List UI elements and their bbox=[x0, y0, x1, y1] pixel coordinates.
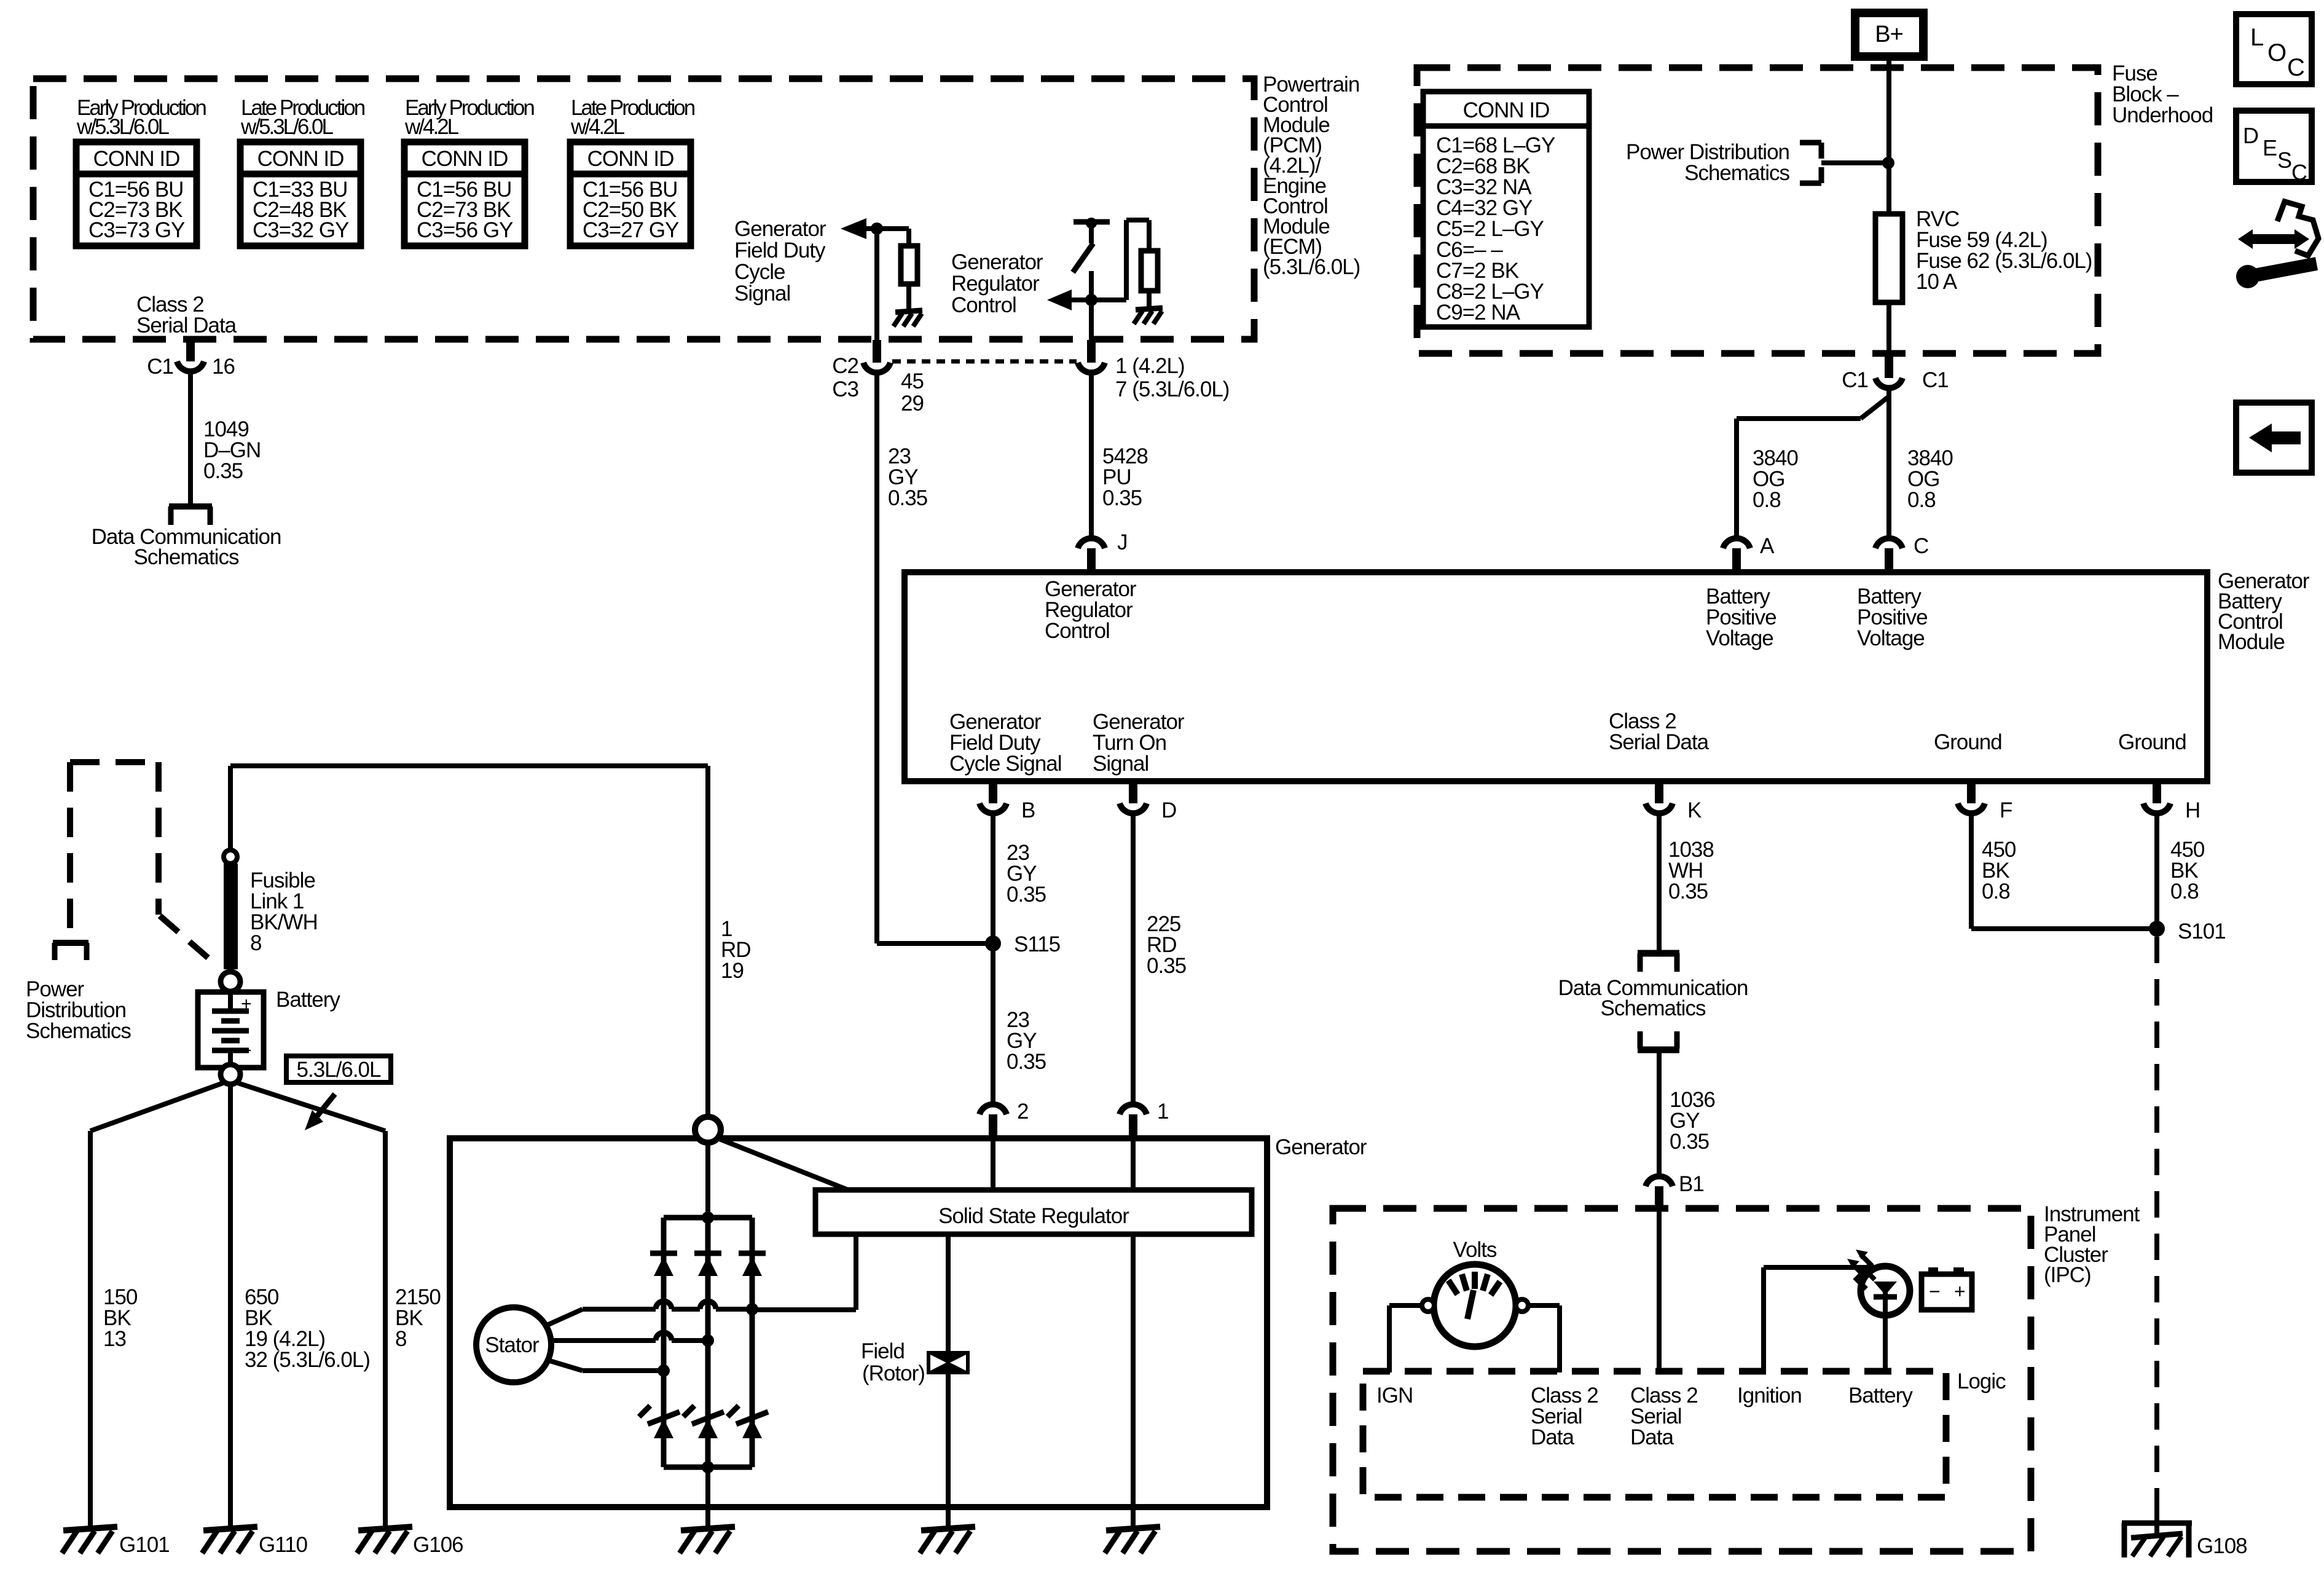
svg-text:w/5.3L/6.0L: w/5.3L/6.0L bbox=[240, 115, 333, 139]
wire: B+ down to fuse bbox=[1886, 57, 1891, 215]
wire: telltale to logic box bbox=[1883, 1315, 1888, 1372]
ground G108 bbox=[2122, 1507, 2247, 1558]
pin label: Ignition bbox=[1737, 1384, 1802, 1408]
wire 225 RD 0.35 (D to generator pin 1) bbox=[1133, 811, 1186, 1104]
zener diode (lower, leg 3) bbox=[728, 1406, 768, 1438]
off-page ref: Power Distribution Schematics (battery, dashed) bbox=[26, 762, 216, 1043]
wire: field duty dot down to C2 bbox=[874, 229, 879, 341]
wire: fuse to C1 connector bbox=[1886, 302, 1891, 355]
svg-text:0.8: 0.8 bbox=[2170, 880, 2199, 904]
wire: regulator to field bbox=[946, 1233, 951, 1352]
rectifier leg 1 (with diodes) bbox=[661, 1218, 667, 1467]
svg-text:D: D bbox=[2243, 123, 2258, 148]
battery icon (IPC) bbox=[1922, 1267, 1972, 1310]
svg-text:IGN: IGN bbox=[1376, 1384, 1413, 1408]
wire: field to ground bbox=[946, 1374, 951, 1529]
pin label: Battery Positive Voltage (A) bbox=[1706, 585, 1776, 650]
svg-text:C: C bbox=[1914, 534, 1928, 558]
label: Generator Field Duty Cycle Signal (PCM) bbox=[734, 217, 826, 305]
svg-text:C3=56 GY: C3=56 GY bbox=[417, 218, 513, 242]
svg-text:Generator: Generator bbox=[951, 250, 1043, 274]
wire 1038 WH 0.35 (K down) bbox=[1659, 811, 1714, 953]
svg-text:D: D bbox=[1161, 798, 1176, 822]
wire: stator sense to regulator bbox=[752, 1234, 856, 1310]
rectifier top bus bbox=[664, 1211, 752, 1224]
connector K (GBCM) bbox=[1646, 781, 1702, 822]
svg-text:CONN ID: CONN ID bbox=[587, 147, 674, 171]
wire: resistor to ground bbox=[1147, 291, 1152, 307]
resistor R-regulator (PCM) bbox=[1141, 251, 1158, 291]
svg-text:Ignition: Ignition bbox=[1737, 1384, 1802, 1408]
svg-text:B: B bbox=[1021, 798, 1035, 822]
svg-text:+: + bbox=[241, 994, 251, 1014]
pin label: Generator Field Duty Cycle Signal (GBCM) bbox=[949, 710, 1062, 776]
field (rotor) coil bbox=[861, 1339, 970, 1385]
svg-text:−: − bbox=[241, 1041, 251, 1061]
pin label: Ground (F) bbox=[1934, 730, 2002, 754]
stator winding bbox=[476, 1307, 551, 1382]
svg-text:10 A: 10 A bbox=[1916, 270, 1958, 294]
wire: terminal to solid state regulator bbox=[718, 1138, 848, 1190]
svg-text:Volts: Volts bbox=[1453, 1238, 1497, 1262]
telltale LED (charge indicator) bbox=[1847, 1250, 1910, 1315]
wire: terminal into rectifier bbox=[705, 1143, 710, 1218]
wire 450 BK 0.8 (H to S101) bbox=[2157, 811, 2205, 929]
svg-text:CONN ID: CONN ID bbox=[422, 147, 508, 171]
wire 23 GY 0.35 (B to S115) bbox=[993, 811, 1046, 943]
svg-text:G110: G110 bbox=[259, 1533, 308, 1557]
svg-text:S101: S101 bbox=[2178, 919, 2226, 943]
CONN ID table: Early Production w/5.3L/6.0L bbox=[76, 96, 206, 246]
pin label: Battery Positive Voltage (C) bbox=[1857, 585, 1928, 650]
svg-text:13: 13 bbox=[103, 1327, 126, 1351]
svg-text:CONN ID: CONN ID bbox=[1463, 98, 1550, 122]
connector B1 (IPC) bbox=[1646, 1172, 1704, 1211]
svg-text:H: H bbox=[2185, 798, 2200, 822]
svg-text:Serial Data: Serial Data bbox=[136, 313, 237, 337]
pin label: Generator Turn On Signal (GBCM) bbox=[1093, 710, 1185, 776]
wire 23 GY 0.35 (C2 to S115) bbox=[877, 371, 927, 943]
svg-text:0.8: 0.8 bbox=[1907, 488, 1936, 512]
label: 5.3L/6.0L (boxed, with arrow) bbox=[286, 1056, 391, 1130]
svg-text:Module: Module bbox=[2218, 630, 2285, 654]
svg-text:G101: G101 bbox=[119, 1533, 170, 1557]
wire: dot to resistor bbox=[877, 229, 909, 247]
svg-text:C3=32 GY: C3=32 GY bbox=[253, 218, 349, 242]
svg-text:Regulator: Regulator bbox=[951, 272, 1040, 296]
wire: gauge Class2 side bbox=[1528, 1305, 1560, 1372]
generator B+ output terminal bbox=[695, 1117, 721, 1143]
splice S101 bbox=[2149, 919, 2226, 943]
svg-text:F: F bbox=[2000, 798, 2012, 822]
svg-text:C1: C1 bbox=[1922, 368, 1949, 392]
ground (PCM field circuit) bbox=[893, 310, 922, 326]
wire: battery positive to generator (top run) bbox=[230, 766, 708, 1119]
connector C (GBCM) bbox=[1875, 534, 1928, 571]
svg-text:J: J bbox=[1117, 530, 1128, 554]
svg-text:B1: B1 bbox=[1679, 1172, 1704, 1196]
pin label: Generator Regulator Control (GBCM) bbox=[1045, 577, 1137, 643]
svg-text:w/4.2L: w/4.2L bbox=[404, 115, 459, 139]
PCM/ECM module dashed box bbox=[33, 79, 1254, 339]
svg-text:0.8: 0.8 bbox=[1982, 880, 2010, 904]
svg-text:0.35: 0.35 bbox=[203, 459, 243, 483]
pin label: Class 2 Serial Data (B1 into logic) bbox=[1630, 1384, 1698, 1449]
svg-text:Generator: Generator bbox=[734, 217, 826, 241]
ground G101 bbox=[62, 1527, 170, 1557]
wire: rectifier to ground bbox=[705, 1467, 710, 1529]
module box: Solid State Regulator bbox=[815, 1190, 1252, 1234]
svg-text:C3=73 GY: C3=73 GY bbox=[88, 218, 185, 242]
svg-text:C3: C3 bbox=[832, 377, 858, 401]
svg-text:S: S bbox=[2277, 148, 2291, 173]
off-page ref: Data Communication Schematics (middle) bbox=[1558, 953, 1748, 1050]
svg-text:Data: Data bbox=[1630, 1425, 1674, 1449]
svg-text:B+: B+ bbox=[1875, 22, 1903, 47]
svg-text:0.35: 0.35 bbox=[1147, 954, 1186, 978]
svg-text:(5.3L/6.0L): (5.3L/6.0L) bbox=[1263, 255, 1360, 279]
wire: ignition to telltale bbox=[1764, 1267, 1885, 1372]
svg-text:Schematics: Schematics bbox=[1684, 161, 1789, 185]
svg-text:C1: C1 bbox=[147, 355, 173, 379]
icon: diagnostic tool (arrow + wrench) bbox=[2236, 202, 2318, 288]
svg-text:G108: G108 bbox=[2197, 1534, 2247, 1558]
svg-text:O: O bbox=[2267, 39, 2286, 66]
wire: off-page ref to B+ wire bbox=[1821, 160, 1888, 165]
svg-text:1 (4.2L): 1 (4.2L) bbox=[1115, 354, 1185, 378]
connector B (GBCM) bbox=[979, 781, 1035, 822]
wire 3840 OG 0.8 (right branch to C) bbox=[1889, 387, 1953, 540]
svg-text:S115: S115 bbox=[1014, 932, 1060, 956]
icon: LOC box bbox=[2236, 14, 2312, 84]
pin label: Class 2 Serial Data (gauge) bbox=[1531, 1384, 1598, 1449]
svg-text:Voltage: Voltage bbox=[1857, 626, 1925, 650]
wire: S101 to G108 (dashed) bbox=[2154, 937, 2159, 1509]
CONN ID table: Early Production w/4.2L bbox=[404, 96, 534, 246]
connector C2/C3 pins 45/29 bbox=[832, 340, 924, 415]
svg-text:A: A bbox=[1760, 534, 1775, 558]
switch: generator regulator control (PCM) bbox=[1073, 218, 1110, 341]
svg-text:Schematics: Schematics bbox=[26, 1019, 131, 1043]
svg-text:C3=27 GY: C3=27 GY bbox=[583, 218, 679, 242]
svg-text:C: C bbox=[2287, 54, 2304, 81]
logic dashed box (IPC) bbox=[1363, 1369, 2006, 1497]
svg-text:Schematics: Schematics bbox=[1601, 996, 1706, 1020]
svg-text:C9=2 NA: C9=2 NA bbox=[1436, 301, 1521, 325]
connector boundary (dotted) bbox=[892, 360, 1077, 364]
pin label: Battery (telltale) bbox=[1848, 1384, 1913, 1408]
svg-text:Field: Field bbox=[861, 1339, 905, 1363]
svg-text:Logic: Logic bbox=[1957, 1369, 2006, 1393]
stator wire 3 bbox=[546, 1360, 670, 1377]
svg-text:Serial Data: Serial Data bbox=[1609, 730, 1710, 754]
svg-text:0.35: 0.35 bbox=[1670, 1130, 1709, 1154]
arrow: Generator Field Duty Cycle Signal bbox=[841, 218, 877, 239]
wire 1049 D-GN 0.35 bbox=[190, 369, 261, 505]
ground (generator, right) bbox=[1105, 1527, 1160, 1553]
svg-text:45: 45 bbox=[901, 369, 924, 393]
diode (upper, leg 3) bbox=[739, 1253, 766, 1276]
CONN ID table (fuse block) bbox=[1423, 92, 1589, 327]
svg-text:Signal: Signal bbox=[734, 282, 790, 305]
label: 1 RD 19 bbox=[721, 917, 751, 983]
connector A (GBCM) bbox=[1723, 534, 1775, 571]
svg-text:(Rotor): (Rotor) bbox=[862, 1361, 925, 1385]
svg-text:L: L bbox=[2250, 24, 2263, 51]
svg-text:G106: G106 bbox=[413, 1533, 463, 1557]
node: Class 2 Serial Data (PCM) bbox=[136, 293, 237, 337]
generator connector 1 bbox=[1120, 1100, 1168, 1136]
volts gauge bbox=[1422, 1238, 1528, 1347]
svg-text:16: 16 bbox=[212, 355, 235, 379]
svg-text:0.35: 0.35 bbox=[1102, 486, 1142, 510]
CONN ID table: Late Production w/5.3L/6.0L bbox=[240, 96, 365, 246]
diode (upper, leg 2) bbox=[694, 1253, 721, 1276]
svg-text:5.3L/6.0L: 5.3L/6.0L bbox=[297, 1058, 381, 1082]
pin label: IGN bbox=[1376, 1384, 1413, 1408]
wire: B1 to logic box bbox=[1657, 1210, 1662, 1372]
wire 150 BK 13 (to G101) bbox=[90, 1083, 223, 1529]
icon: DESC box bbox=[2236, 111, 2312, 185]
label: Powertrain Control Module (PCM)(4.2L)/ECM bbox=[1263, 73, 1360, 279]
svg-text:Control: Control bbox=[1045, 619, 1110, 643]
ground G106 bbox=[357, 1527, 463, 1557]
svg-text:Underhood: Underhood bbox=[2112, 103, 2213, 127]
rectifier bottom bus bbox=[664, 1461, 752, 1473]
connector H (GBCM) bbox=[2143, 781, 2200, 822]
svg-text:19: 19 bbox=[721, 959, 744, 983]
rectifier leg 3 (with diodes) bbox=[750, 1218, 755, 1467]
connector J (GBCM) bbox=[1078, 530, 1128, 571]
svg-text:Battery: Battery bbox=[1848, 1384, 1913, 1408]
svg-text:Signal: Signal bbox=[1093, 752, 1148, 776]
ground (generator, rectifier) bbox=[680, 1527, 735, 1553]
arrow + label: Generator Regulator Control bbox=[951, 250, 1091, 317]
node/junction on B+ wire bbox=[1882, 157, 1894, 169]
wire 450 BK 0.8 (F to S101) bbox=[1971, 811, 2157, 929]
diode (upper, leg 1) bbox=[650, 1253, 677, 1276]
zener diode (lower, leg 1) bbox=[639, 1406, 680, 1438]
svg-text:Solid State Regulator: Solid State Regulator bbox=[938, 1204, 1129, 1228]
svg-text:32 (5.3L/6.0L): 32 (5.3L/6.0L) bbox=[245, 1348, 370, 1372]
svg-text:Stator: Stator bbox=[485, 1333, 540, 1357]
off-page ref: Power Distribution Schematics (top) bbox=[1626, 140, 1821, 185]
svg-text:0.8: 0.8 bbox=[1753, 488, 1781, 512]
svg-text:0.35: 0.35 bbox=[888, 486, 927, 510]
wire: gauge IGN side bbox=[1389, 1305, 1422, 1372]
svg-text:Cycle: Cycle bbox=[734, 260, 785, 284]
connector D (GBCM) bbox=[1120, 781, 1176, 822]
wire 2150 BK 8 (to G106) bbox=[238, 1083, 441, 1529]
connector C1 (fuse block, both C1) bbox=[1842, 353, 1949, 392]
node/junction: regulator control bbox=[1085, 294, 1097, 306]
svg-text:w/4.2L: w/4.2L bbox=[570, 115, 625, 139]
stator wire 1 bbox=[546, 1301, 758, 1326]
wire: junction right and up to resistor bbox=[1091, 220, 1149, 300]
ground (PCM regulator circuit) bbox=[1134, 308, 1163, 324]
rectifier leg 2 (with diodes) bbox=[705, 1218, 711, 1467]
svg-text:0.35: 0.35 bbox=[1007, 1050, 1046, 1074]
wire 3840 OG 0.8 (left branch to A) bbox=[1737, 396, 1889, 540]
svg-text:Ground: Ground bbox=[1934, 730, 2002, 754]
svg-text:Ground: Ground bbox=[2118, 730, 2186, 754]
label: Generator Battery Control Module bbox=[2218, 569, 2310, 654]
svg-text:E: E bbox=[2263, 135, 2277, 160]
connector C1 pin 16 (PCM) bbox=[147, 339, 235, 379]
svg-text:(IPC): (IPC) bbox=[2044, 1263, 2091, 1287]
svg-text:1: 1 bbox=[1157, 1100, 1168, 1124]
svg-text:C1: C1 bbox=[1842, 368, 1868, 392]
svg-text:Field Duty: Field Duty bbox=[734, 238, 826, 262]
zener diode (lower, leg 2) bbox=[683, 1406, 724, 1438]
svg-text:K: K bbox=[1687, 798, 1702, 822]
ground G110 bbox=[202, 1527, 308, 1557]
off-page ref: Data Communication Schematics (left) bbox=[92, 506, 281, 569]
svg-text:8: 8 bbox=[250, 931, 261, 955]
wire 650 BK (to G110) bbox=[230, 1084, 370, 1529]
label: Instrument Panel Cluster (IPC) bbox=[2044, 1202, 2140, 1287]
svg-text:Cycle Signal: Cycle Signal bbox=[949, 752, 1062, 776]
svg-text:7 (5.3L/6.0L): 7 (5.3L/6.0L) bbox=[1115, 377, 1229, 401]
power feed B+ terminal bbox=[1855, 13, 1923, 57]
svg-text:−: − bbox=[1929, 1280, 1940, 1302]
fuse RVC 10A bbox=[1875, 207, 2092, 302]
svg-text:+: + bbox=[1954, 1280, 1965, 1302]
svg-text:w/5.3L/6.0L: w/5.3L/6.0L bbox=[76, 115, 169, 139]
fusible link 1 BK/WH 8 bbox=[221, 850, 318, 991]
svg-text:29: 29 bbox=[901, 392, 924, 415]
svg-text:C2: C2 bbox=[832, 354, 858, 378]
resistor R-field (PCM) bbox=[901, 246, 917, 284]
svg-text:CONN ID: CONN ID bbox=[257, 147, 344, 171]
wire: pin 1 through regulator to ground bbox=[1131, 1138, 1136, 1529]
connector pin 1(4.2L)/7(5.3L/6.0L) bbox=[1078, 340, 1229, 401]
icon: back arrow box bbox=[2236, 403, 2312, 473]
svg-text:Schematics: Schematics bbox=[134, 545, 239, 569]
ground (generator, field) bbox=[920, 1527, 975, 1553]
module dashed box: Instrument Panel Cluster bbox=[1333, 1208, 2031, 1551]
generator connector 2 bbox=[979, 1100, 1028, 1136]
pin label: Class 2 Serial Data (GBCM) bbox=[1609, 709, 1710, 754]
svg-text:0.35: 0.35 bbox=[1668, 880, 1708, 904]
wire 5428 PU 0.35 (to GBCM J) bbox=[1091, 371, 1148, 540]
svg-text:Generator: Generator bbox=[1275, 1135, 1367, 1159]
wire 23 GY 0.35 (S115 to generator pin 2) bbox=[993, 943, 1046, 1104]
svg-text:Voltage: Voltage bbox=[1706, 626, 1773, 650]
svg-text:0.35: 0.35 bbox=[1007, 883, 1046, 907]
svg-text:8: 8 bbox=[395, 1327, 406, 1351]
label: Fuse Block - Underhood bbox=[2112, 61, 2213, 127]
wire: resistor to ground bbox=[906, 284, 911, 310]
svg-text:C: C bbox=[2291, 160, 2307, 185]
svg-text:Battery: Battery bbox=[276, 988, 340, 1012]
svg-text:Control: Control bbox=[951, 293, 1016, 317]
wire 1036 GY 0.35 (to IPC B1) bbox=[1659, 1051, 1715, 1176]
wire: pin 2 to regulator bbox=[991, 1138, 995, 1191]
svg-text:2: 2 bbox=[1017, 1100, 1028, 1124]
battery bbox=[198, 988, 340, 1084]
svg-text:Data: Data bbox=[1531, 1425, 1574, 1449]
splice S115 bbox=[877, 932, 1060, 956]
stator wire 2 bbox=[552, 1333, 714, 1347]
module box: Generator bbox=[450, 1135, 1367, 1507]
connector F (GBCM) bbox=[1958, 781, 2012, 822]
pin label: Ground (H) bbox=[2118, 730, 2186, 754]
node/junction: field duty cycle bbox=[871, 222, 883, 235]
fuse block dashed box bbox=[1417, 68, 2098, 353]
svg-text:CONN ID: CONN ID bbox=[93, 147, 180, 171]
module box: Generator Battery Control Module bbox=[905, 572, 2207, 781]
CONN ID table: Late Production w/4.2L bbox=[570, 96, 695, 246]
